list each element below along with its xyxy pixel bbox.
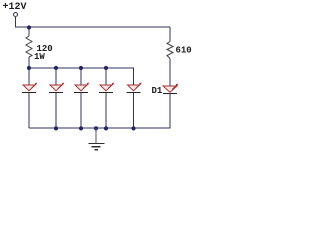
ground stub wire (95, 128, 97, 143)
ground bar 3 (95, 149, 99, 151)
wire R1 top lead (28, 27, 30, 36)
LED D (col 4) (99, 83, 114, 93)
junction dot (56,128) (54, 126, 58, 130)
wire LED1 cathode (28, 93, 30, 128)
svg-text:+12V: +12V (3, 2, 27, 13)
wire LED3 cathode (80, 93, 82, 128)
wire LED2 anode (55, 68, 57, 85)
wire LED2 cathode (55, 93, 57, 128)
wire top rail (15, 26, 170, 28)
svg-text:610: 610 (176, 46, 192, 56)
resistor R2 610 zigzag (167, 42, 173, 59)
LED D (col 3) (74, 83, 89, 93)
wire LED3 anode (80, 68, 82, 85)
wire D1 cathode (169, 94, 171, 128)
junction dot (106,128) (104, 126, 108, 130)
wire LED1 anode (28, 68, 30, 85)
junction dot (106,68) (104, 66, 108, 70)
junction dot node R1 top (29,27) (27, 25, 31, 29)
wire bottom bus (29, 127, 171, 129)
svg-text:D1: D1 (152, 86, 163, 96)
wire LED5 anode (bus corner) (133, 68, 135, 85)
wire right branch top lead (169, 27, 171, 42)
junction dot (134,128) (131, 126, 135, 130)
junction dot ground (96,128) (94, 126, 98, 130)
junction dot (81,68) (79, 66, 83, 70)
junction dot anode bus left (29,68) (27, 66, 31, 70)
wire LED4 anode (105, 68, 107, 85)
LED D (col 5) (127, 83, 142, 93)
junction dot (56,68) (54, 66, 58, 70)
junction dot (81,128) (79, 126, 83, 130)
wire terminal to top rail (15, 17, 17, 27)
wire LED4 cathode (105, 93, 107, 128)
wire R2 to D1 (169, 59, 171, 87)
power terminal +12V (14, 13, 18, 17)
LED D (col 2) (49, 83, 64, 93)
wire anode bus (29, 67, 134, 69)
wire R1 bottom lead (28, 57, 30, 68)
ground bar 1 (88, 143, 104, 145)
svg-text:1W: 1W (34, 52, 45, 62)
ground bar 2 (92, 146, 101, 148)
wire LED5 cathode (133, 93, 135, 128)
LED D (col 1) (22, 83, 37, 93)
resistor R1 120 1W zigzag (26, 36, 32, 57)
LED D1 (163, 84, 178, 94)
